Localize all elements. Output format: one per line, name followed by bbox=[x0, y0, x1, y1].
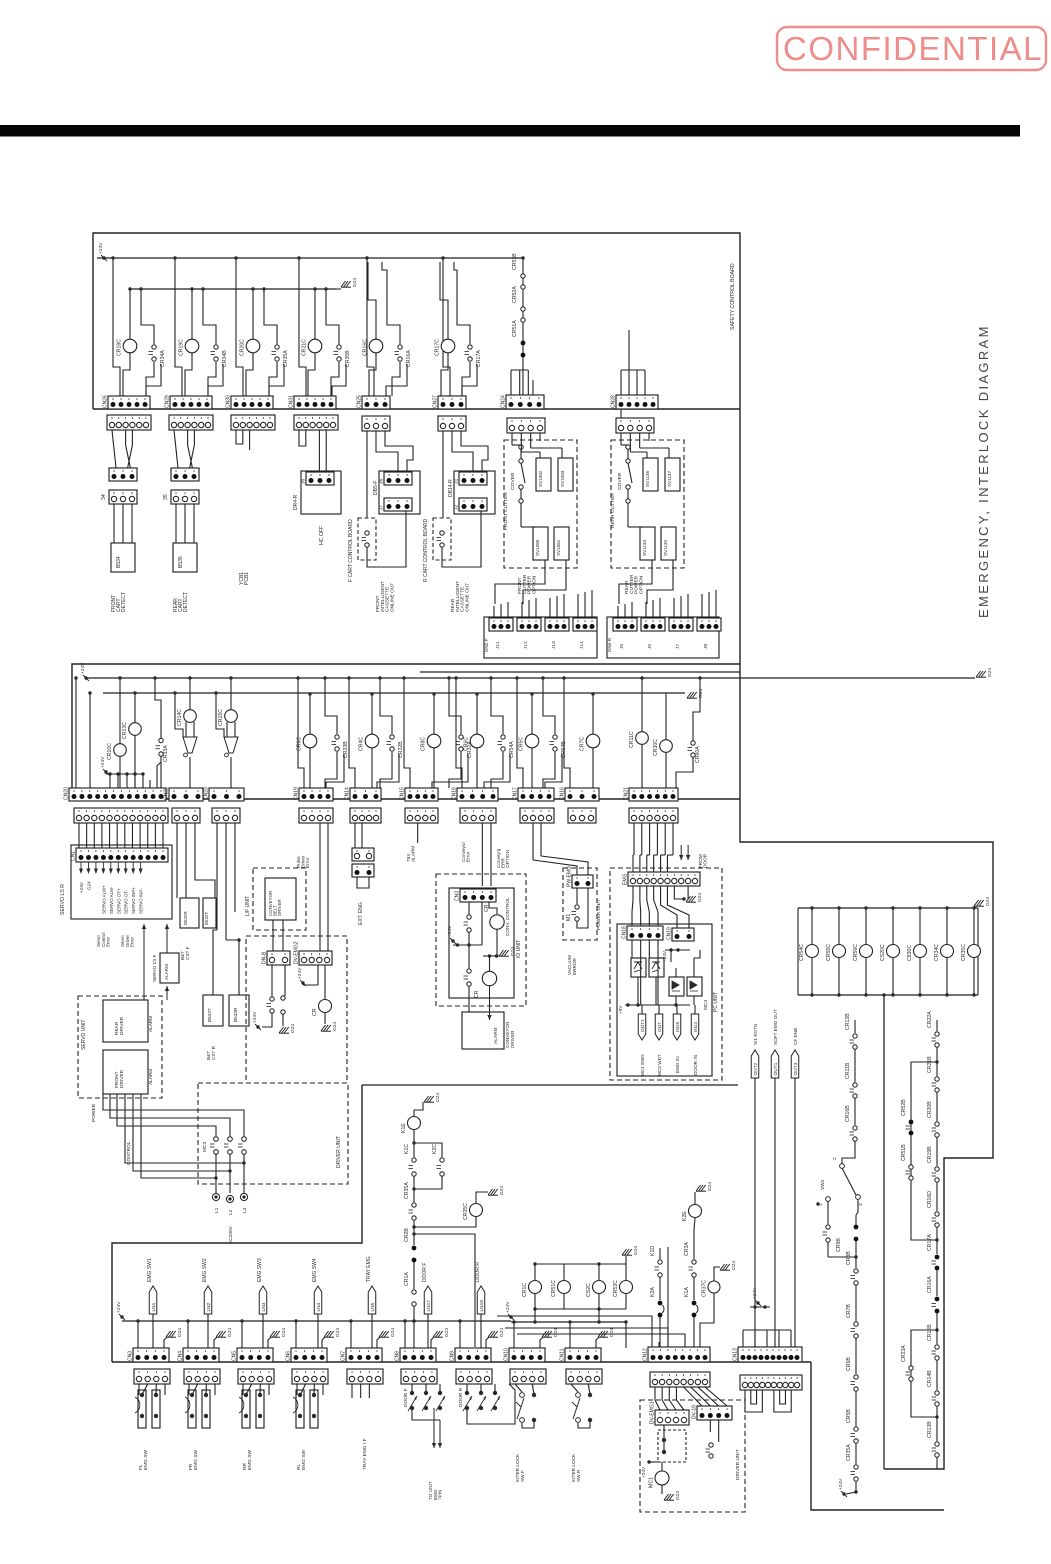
wire pin5 riser bbox=[269, 364, 284, 396]
svg-text:EMG SW4: EMG SW4 bbox=[312, 1258, 318, 1282]
contact CR51A bbox=[512, 320, 525, 358]
optocoupler MC3 WDT bbox=[649, 958, 664, 977]
relay coil CS20C wires bbox=[892, 908, 894, 945]
svg-text:G24: G24 bbox=[335, 1328, 341, 1337]
boxes B533T B533R bbox=[203, 995, 223, 1026]
relay coil CR20C bbox=[240, 339, 260, 356]
net tag OUT1 bbox=[771, 1050, 779, 1078]
tag wire down bbox=[152, 1314, 154, 1348]
svg-text:SERVO INP-: SERVO INP- bbox=[139, 888, 144, 914]
connector CN8 bbox=[395, 1348, 437, 1362]
svg-text:CR: CR bbox=[312, 1008, 318, 1016]
svg-text:CR17A: CR17A bbox=[476, 350, 482, 367]
svg-text:+24V: +24V bbox=[98, 242, 104, 254]
svg-text:G24: G24 bbox=[675, 1491, 681, 1500]
svg-text:LN2: LN2 bbox=[206, 1302, 212, 1311]
svg-text:ALARM: ALARM bbox=[411, 846, 416, 862]
svg-text:LN1: LN1 bbox=[151, 1302, 157, 1311]
svg-text:CR19B: CR19B bbox=[927, 1146, 933, 1163]
svg-text:+24V: +24V bbox=[252, 1011, 258, 1023]
connector bbox=[172, 808, 200, 823]
svg-text:K1C: K1C bbox=[404, 1144, 410, 1154]
wires CN19 down to conveyor bbox=[319, 823, 321, 951]
svg-text:CN20: CN20 bbox=[64, 787, 70, 800]
svg-text:CST R: CST R bbox=[211, 1045, 216, 1060]
wires CN28 into cutter bbox=[620, 410, 622, 427]
svg-text:CN7: CN7 bbox=[341, 1351, 347, 1361]
wires CN24 into cutter bbox=[511, 433, 513, 445]
svg-text:G24: G24 bbox=[633, 1246, 639, 1255]
svg-text:CR56C: CR56C bbox=[853, 944, 859, 961]
wire rail to G24 bbox=[625, 1256, 627, 1264]
svg-text:G24: G24 bbox=[609, 1328, 615, 1337]
connector CN30 bbox=[226, 395, 274, 409]
svg-text:CR18C: CR18C bbox=[117, 339, 123, 356]
relay coil CR11C wires bbox=[641, 678, 643, 732]
relay coil C830C wires bbox=[919, 908, 921, 945]
block SERVO LS R / CN1 bbox=[71, 845, 172, 919]
relay coil CR51C wires bbox=[563, 1264, 565, 1280]
box conveyor driver alarm bbox=[462, 1012, 504, 1049]
contact CR52A bbox=[512, 286, 525, 322]
svg-text:CR13B: CR13B bbox=[927, 1421, 933, 1438]
interlock switch R bbox=[576, 1393, 581, 1398]
wires CN13 risers bbox=[742, 1330, 744, 1347]
ground G24 bbox=[976, 668, 993, 678]
svg-text:G24: G24 bbox=[510, 947, 516, 956]
contact CR9B bbox=[836, 1225, 858, 1252]
contact CR21B bbox=[927, 1056, 939, 1092]
connector CN16 bbox=[560, 787, 600, 801]
svg-text:+24V: +24V bbox=[662, 950, 667, 962]
connector bbox=[456, 1369, 492, 1384]
svg-text:CN15: CN15 bbox=[400, 787, 406, 800]
wire pin5 riser bbox=[462, 364, 477, 396]
connector CN25 bbox=[357, 395, 391, 409]
wire second rail to coil bbox=[314, 289, 316, 339]
box SV1137 bbox=[665, 458, 680, 491]
svg-text:CR: CR bbox=[474, 990, 480, 998]
connector bbox=[520, 808, 554, 823]
node +24V bbox=[100, 756, 109, 775]
tag wire down bbox=[371, 1314, 373, 1348]
svg-text:EMG SW: EMG SW bbox=[193, 1450, 199, 1470]
svg-text:LN18: LN18 bbox=[479, 1300, 485, 1312]
wire U loop bbox=[236, 430, 243, 444]
wires tray stubs bbox=[351, 1384, 353, 1398]
contact CR17A bbox=[465, 345, 483, 367]
relay coil CR35C wires bbox=[973, 908, 975, 945]
node +24V bbox=[447, 925, 456, 944]
relay coil CR bbox=[484, 904, 504, 929]
ground G24 bbox=[974, 897, 991, 907]
wire coil to pin bbox=[185, 352, 192, 396]
optocoupler EMG IN bbox=[669, 977, 684, 996]
contact CR16A bbox=[395, 345, 413, 367]
svg-text:DOOR R: DOOR R bbox=[475, 1262, 481, 1282]
bottom right frame bbox=[811, 1362, 944, 1510]
node +24V bbox=[297, 967, 306, 986]
wire pin4 riser bbox=[484, 754, 510, 788]
wire with arrow bbox=[487, 986, 491, 1020]
svg-text:CR11B: CR11B bbox=[845, 1062, 851, 1079]
wire pin4 riser bbox=[326, 754, 344, 788]
connector bbox=[231, 415, 275, 430]
wire second rail to coil bbox=[368, 262, 376, 339]
relay coil CR13C bbox=[122, 722, 141, 739]
connector bbox=[566, 1369, 602, 1384]
svg-text:CR35A: CR35A bbox=[404, 1182, 410, 1199]
svg-text:CR17A: CR17A bbox=[927, 1234, 933, 1251]
svg-text:S/1 RSTN: S/1 RSTN bbox=[753, 1024, 758, 1045]
svg-text:EMERGENCY, INTERLOCK DIAGRAM: EMERGENCY, INTERLOCK DIAGRAM bbox=[976, 324, 991, 618]
wire second rail to coil bbox=[252, 289, 254, 339]
svg-text:SV1082: SV1082 bbox=[538, 470, 543, 487]
svg-text:J8: J8 bbox=[703, 644, 709, 649]
svg-text:DRIVER: DRIVER bbox=[119, 1069, 125, 1088]
connector J1 bbox=[454, 472, 488, 485]
svg-text:MC1: MC1 bbox=[649, 1477, 655, 1488]
terminals L1 L2 L3 bbox=[212, 1193, 219, 1200]
connector CN26 bbox=[103, 395, 151, 409]
svg-text:LN3: LN3 bbox=[261, 1302, 267, 1311]
svg-text:K2E: K2E bbox=[682, 1211, 688, 1221]
svg-text:CN29: CN29 bbox=[165, 395, 171, 408]
svg-text:CR8C: CR8C bbox=[421, 737, 427, 751]
wire pin3 down bbox=[481, 902, 483, 945]
ground G24 bbox=[664, 1491, 681, 1501]
connector J6 bbox=[379, 472, 413, 485]
wire contact upper bbox=[141, 289, 154, 344]
svg-text:G24: G24 bbox=[352, 278, 358, 287]
relay coil CR56C bbox=[853, 944, 873, 961]
connector CN15 bbox=[400, 787, 439, 801]
svg-text:DOOR F: DOOR F bbox=[422, 1263, 428, 1282]
emg switch block bbox=[138, 1390, 146, 1428]
relay coil CR35C bbox=[463, 1203, 483, 1220]
board F CART CONTROL BOARD bbox=[358, 518, 376, 560]
connector CN23 bbox=[204, 787, 245, 801]
net tag LN5 bbox=[368, 1286, 376, 1314]
connector CN13 bbox=[733, 1347, 803, 1362]
svg-text:DETECT: DETECT bbox=[183, 592, 189, 612]
svg-text:+24V: +24V bbox=[752, 1287, 758, 1299]
svg-text:FRONT CUTTER: FRONT CUTTER bbox=[503, 492, 509, 530]
wire contact lower to pin bbox=[269, 362, 277, 396]
contact CR5B bbox=[846, 1409, 858, 1444]
svg-text:DRIVER: DRIVER bbox=[510, 1030, 515, 1048]
wire SW2 to CR9B bbox=[856, 1199, 858, 1215]
contact CR17A bbox=[927, 1234, 939, 1271]
svg-text:CN28: CN28 bbox=[611, 395, 617, 408]
ground G24 bbox=[279, 1024, 296, 1034]
unit FRONT CUTTER bbox=[504, 440, 577, 568]
branch rail B upper bbox=[911, 1062, 937, 1240]
cover switch chain R bbox=[626, 445, 630, 449]
relay coil CR6C wires bbox=[476, 694, 478, 734]
chain column A bbox=[854, 1020, 856, 1033]
svg-text:LN5: LN5 bbox=[370, 1302, 376, 1311]
contact K1C bbox=[404, 1144, 416, 1177]
wire bundle cutter R to DN4-R bbox=[619, 560, 652, 604]
connector bbox=[401, 1369, 437, 1384]
relay coil CR55C wires bbox=[838, 908, 840, 945]
svg-text:CN24: CN24 bbox=[501, 395, 507, 408]
svg-text:CS20C: CS20C bbox=[880, 944, 886, 961]
wire pin5 riser bbox=[386, 364, 407, 396]
connector bbox=[740, 1375, 802, 1390]
contact CR32B wires bbox=[380, 678, 392, 734]
svg-text:EMG SW: EMG SW bbox=[143, 1450, 149, 1470]
svg-text:B532R: B532R bbox=[183, 910, 188, 925]
svg-text:CR22A: CR22A bbox=[927, 1011, 933, 1028]
connector CN9 bbox=[450, 1348, 492, 1362]
contact bbox=[437, 531, 445, 547]
relay coil K1E bbox=[401, 1117, 421, 1134]
unit DRIVER UNIT lower bbox=[640, 1400, 745, 1512]
relay coil CR10C wires bbox=[119, 678, 121, 744]
relay coil CR7C wires bbox=[592, 694, 594, 734]
wire coil to pin bbox=[441, 352, 448, 396]
connector DV-19 bbox=[692, 1405, 733, 1420]
node +24V bbox=[752, 1287, 761, 1306]
svg-text:EMG SW3: EMG SW3 bbox=[257, 1258, 263, 1282]
svg-text:CR9C: CR9C bbox=[297, 737, 303, 751]
wire coil to pin bbox=[123, 352, 130, 396]
svg-text:CN3: CN3 bbox=[455, 891, 461, 901]
svg-text:J7: J7 bbox=[675, 644, 681, 649]
svg-text:G24: G24 bbox=[697, 893, 703, 902]
relay coil C830C bbox=[907, 945, 927, 962]
connector bbox=[352, 848, 374, 861]
svg-text:CR15C: CR15C bbox=[218, 709, 224, 726]
svg-text:IO UNIT: IO UNIT bbox=[516, 940, 522, 958]
svg-text:DN2-F: DN2-F bbox=[484, 638, 489, 652]
svg-text:J14: J14 bbox=[579, 641, 585, 649]
relay coil CR5C wires bbox=[531, 694, 533, 734]
wire pin5 riser bbox=[208, 364, 223, 396]
svg-text:CR12B: CR12B bbox=[845, 1013, 851, 1030]
connector CN24 wires bbox=[532, 380, 534, 395]
contact CR16D bbox=[927, 1191, 939, 1227]
wires cutter to J12 bbox=[521, 602, 523, 618]
relay coil CR54C wires bbox=[811, 908, 813, 945]
svg-text:CR3A: CR3A bbox=[684, 1242, 690, 1256]
relay coil CR11C bbox=[629, 731, 648, 748]
node +24V bbox=[505, 1301, 514, 1320]
relay coil CR8C bbox=[421, 734, 441, 751]
svg-text:B533R: B533R bbox=[233, 1007, 238, 1022]
contact io upper wires bbox=[468, 902, 470, 914]
contact CR35A bbox=[272, 345, 290, 367]
relay coil CR15C bbox=[218, 709, 237, 726]
svg-text:SOFT EMG OUT: SOFT EMG OUT bbox=[773, 1009, 778, 1045]
svg-text:CR35C: CR35C bbox=[961, 944, 967, 961]
svg-text:G24: G24 bbox=[332, 1022, 338, 1031]
svg-text:DV-EMG2: DV-EMG2 bbox=[294, 941, 300, 964]
relay coil K2E bbox=[682, 1205, 702, 1222]
wire long feeder to CN12 pin3 bbox=[667, 1247, 669, 1350]
svg-text:SV1083: SV1083 bbox=[560, 470, 565, 487]
svg-text:CN4: CN4 bbox=[178, 1351, 184, 1361]
svg-text:+24V: +24V bbox=[100, 756, 106, 768]
tag wire down bbox=[317, 1314, 319, 1348]
svg-text:CR1A: CR1A bbox=[404, 1272, 410, 1286]
wires cluster to CN12 bbox=[700, 1293, 714, 1350]
svg-text:CR10C: CR10C bbox=[107, 743, 113, 760]
connector CN17 bbox=[513, 787, 555, 801]
connector CN20 bbox=[64, 787, 167, 801]
svg-text:G24: G24 bbox=[281, 1328, 287, 1337]
svg-text:CR51A: CR51A bbox=[512, 320, 518, 337]
svg-text:DV-EMG1: DV-EMG1 bbox=[650, 1401, 656, 1424]
svg-text:+24V: +24V bbox=[505, 1301, 511, 1313]
svg-text:DN4-R: DN4-R bbox=[607, 637, 612, 652]
wire EMG to G24 bbox=[674, 886, 684, 899]
svg-text:SV1137: SV1137 bbox=[667, 471, 672, 487]
wires CN15 stubs bbox=[417, 823, 419, 843]
svg-text:LN17: LN17 bbox=[426, 1300, 432, 1312]
svg-text:SV1080: SV1080 bbox=[535, 539, 540, 556]
svg-text:CR5B: CR5B bbox=[846, 1409, 852, 1423]
unit conveyor interface dashed bbox=[246, 936, 347, 1083]
svg-text:CR6C: CR6C bbox=[464, 737, 470, 751]
title bar bbox=[0, 125, 1020, 137]
feeder wire to pin1 bbox=[404, 1321, 406, 1348]
svg-text:CR23A: CR23A bbox=[901, 1345, 907, 1362]
svg-text:J12: J12 bbox=[523, 641, 529, 649]
wire contact lower to pin bbox=[331, 362, 339, 396]
contact conveyor switch wires bbox=[271, 965, 273, 997]
wire bundle horizontals to CN12 bbox=[497, 1316, 652, 1348]
contact CR33B wires bbox=[325, 678, 337, 734]
safety control board outline bbox=[93, 233, 740, 672]
wires CN24 risers bbox=[510, 370, 512, 395]
contact CR6B bbox=[846, 1357, 858, 1392]
node +24V bbox=[80, 662, 89, 681]
svg-text:K2C: K2C bbox=[432, 1144, 438, 1154]
svg-text:MC3: MC3 bbox=[703, 1000, 709, 1010]
wires EMG to CN18 bbox=[632, 886, 634, 900]
svg-text:TRAY EMG: TRAY EMG bbox=[366, 1256, 372, 1282]
relay coil CR30C wires bbox=[665, 693, 667, 740]
relay coil CR17C bbox=[435, 339, 455, 356]
wire coil to pin bbox=[369, 352, 376, 396]
svg-text:CN13: CN13 bbox=[733, 1348, 739, 1361]
svg-text:ONLINE OUT: ONLINE OUT bbox=[389, 583, 395, 612]
box B534 bbox=[111, 543, 135, 572]
svg-text:J6: J6 bbox=[647, 644, 653, 649]
svg-text:CN11: CN11 bbox=[560, 1348, 566, 1361]
svg-text:DN-B: DN-B bbox=[262, 951, 268, 964]
relay coil CR14C bbox=[177, 709, 196, 726]
relay coil CR10C bbox=[107, 743, 126, 760]
ground G24 bbox=[622, 1246, 639, 1256]
ground G24 bbox=[216, 1328, 233, 1338]
svg-text:C830C: C830C bbox=[907, 945, 913, 961]
wires CN13 loops bbox=[745, 1390, 762, 1412]
frame right step bbox=[740, 672, 993, 1469]
feeder wire to pin1 bbox=[295, 1321, 297, 1348]
relay coil CR9C bbox=[297, 734, 317, 751]
relay coil CR52C bbox=[613, 1280, 633, 1297]
svg-text:SERVO LS R: SERVO LS R bbox=[60, 884, 66, 915]
wire second rail to coil bbox=[440, 262, 448, 339]
tag wire down bbox=[207, 1314, 209, 1348]
wire rail drop to pin bbox=[443, 258, 450, 396]
svg-text:L2: L2 bbox=[228, 1209, 234, 1215]
wire contact lower to pin bbox=[208, 362, 216, 396]
svg-text:DB14-R: DB14-R bbox=[448, 479, 454, 497]
connector CN11 bbox=[560, 1348, 602, 1362]
connector CN24 bbox=[501, 395, 545, 409]
feeder wire to pin1 bbox=[459, 1321, 461, 1348]
svg-text:POWER: POWER bbox=[91, 1103, 97, 1122]
wire rail drop to pin bbox=[113, 258, 120, 396]
svg-text:SAFETY CONTROL BOARD: SAFETY CONTROL BOARD bbox=[730, 263, 736, 330]
connector bbox=[171, 468, 199, 481]
connector bbox=[507, 418, 545, 433]
net tag LN4 bbox=[314, 1286, 322, 1314]
svg-text:CR20B: CR20B bbox=[927, 1101, 933, 1118]
svg-text:B532T: B532T bbox=[204, 911, 209, 925]
wires cutter to J13 bbox=[549, 598, 551, 618]
wire CN27 pin1 down bbox=[442, 431, 444, 518]
svg-text:CR16C: CR16C bbox=[363, 339, 369, 356]
connector bbox=[669, 618, 693, 631]
svg-text:G24: G24 bbox=[707, 1182, 713, 1191]
contact K2A bbox=[650, 1287, 662, 1318]
svg-text:7PIN: 7PIN bbox=[438, 1490, 443, 1500]
svg-text:CN16: CN16 bbox=[560, 787, 566, 800]
connector CN12 bbox=[643, 1347, 711, 1362]
relay coil CR8C wires bbox=[433, 694, 435, 734]
contact CR34A bbox=[149, 345, 167, 367]
wire contact lower to pin bbox=[392, 362, 400, 396]
unit HC OFF box bbox=[301, 471, 341, 514]
svg-text:CR35A: CR35A bbox=[283, 350, 289, 367]
arrows below CN1 pins bbox=[79, 862, 83, 874]
net tag OUT3 bbox=[791, 1050, 799, 1078]
svg-text:CR17C: CR17C bbox=[435, 339, 441, 356]
wire bundle cutter F to DN2-F bbox=[495, 560, 545, 604]
wires conn to switch bbox=[242, 1384, 244, 1395]
svg-text:OUT: OUT bbox=[657, 1022, 663, 1032]
connector bbox=[171, 490, 199, 504]
wire circles drop left bbox=[534, 1309, 536, 1322]
svg-text:HC OFF: HC OFF bbox=[319, 526, 325, 545]
wire pin4 riser bbox=[432, 754, 468, 788]
wire with arrow bbox=[438, 1420, 442, 1448]
connector CN19 bbox=[667, 927, 695, 941]
svg-text:CN27: CN27 bbox=[433, 395, 439, 408]
unit L/F UNIT bbox=[253, 868, 306, 930]
unit REAR CUTTER bbox=[611, 440, 684, 568]
connector CN22 bbox=[164, 787, 204, 801]
unit POWER UNIT bbox=[563, 868, 597, 940]
wire bundle to CN12 bbox=[625, 1322, 627, 1348]
svg-text:POWER UNIT: POWER UNIT bbox=[596, 899, 602, 930]
svg-text:MC3: MC3 bbox=[202, 1142, 208, 1152]
net tag LN17 bbox=[424, 1286, 432, 1314]
ground G24 bbox=[720, 1261, 737, 1271]
svg-text:CR21C: CR21C bbox=[302, 339, 308, 356]
connector J6 bbox=[301, 472, 335, 485]
svg-text:AC200V: AC200V bbox=[228, 1225, 234, 1244]
wires CR14C gate inputs bbox=[175, 693, 183, 737]
wires crossing bbox=[112, 430, 116, 468]
svg-text:LN4: LN4 bbox=[316, 1302, 322, 1311]
